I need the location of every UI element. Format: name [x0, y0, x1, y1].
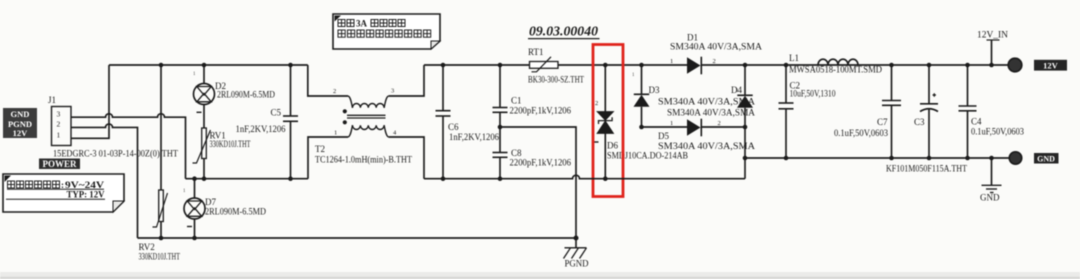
port 12V label box: [1034, 60, 1067, 71]
node junction dot C4 top: [965, 63, 970, 68]
note input voltage range box: [3, 174, 124, 212]
capacitor C8: [493, 127, 508, 179]
node junction dot C7 bottom: [889, 156, 894, 161]
label POWER box: [39, 159, 80, 170]
highlight red box: [593, 45, 623, 197]
svg-text:2200pF,1kV,1206: 2200pF,1kV,1206: [510, 106, 572, 116]
node junction dot gnd takeoff: [743, 156, 748, 161]
port 12V pad: [1008, 58, 1022, 72]
svg-text:SMDJ10CA.DO-214AB: SMDJ10CA.DO-214AB: [607, 151, 688, 161]
wire D2 to RV1: [203, 105, 205, 129]
svg-text:RT1: RT1: [528, 47, 543, 57]
svg-text:4: 4: [393, 130, 397, 137]
wire D4 anode to gnd rail: [744, 127, 746, 179]
svg-text:0.1uF,50V,0603: 0.1uF,50V,0603: [971, 127, 1024, 137]
svg-text:POWER: POWER: [42, 159, 77, 169]
transformer T2 common mode choke: [308, 65, 424, 179]
node junction dot C3 top: [927, 63, 932, 68]
capacitor C4: [959, 65, 977, 158]
svg-text:D5: D5: [658, 131, 669, 141]
capacitor C5: [283, 65, 298, 179]
node junction dot C1 C8 midpoint: [498, 125, 503, 130]
wire gnd rail: [745, 157, 1010, 159]
svg-text:L1: L1: [789, 53, 799, 63]
node junction dot D4 top: [743, 63, 748, 68]
svg-text:2RL090M-6.5MD: 2RL090M-6.5MD: [205, 207, 266, 217]
svg-text:12V: 12V: [1043, 61, 1059, 71]
diode D1: [670, 57, 716, 75]
svg-text:GND: GND: [980, 193, 1000, 203]
node junction dot C7 top: [889, 63, 894, 68]
svg-text:C5: C5: [271, 108, 282, 118]
port GND label box: [1034, 153, 1059, 164]
wire midpoint to drop: [500, 127, 576, 238]
inductor L1: [818, 59, 858, 65]
wire RV2 column from top rail: [160, 65, 162, 190]
svg-text:C1: C1: [511, 96, 522, 106]
ground PGND chassis: [564, 238, 589, 269]
svg-text:C3: C3: [914, 117, 925, 127]
svg-text:12V_IN: 12V_IN: [977, 30, 1009, 40]
wire lower rail right segment with hop: [424, 175, 745, 178]
node junction dot D7 bottom: [192, 236, 197, 241]
svg-text:1nF,2KV,1206: 1nF,2KV,1206: [236, 124, 286, 134]
svg-text:SM340A 40V/3A,SMA: SM340A 40V/3A,SMA: [670, 42, 763, 52]
wire J1 pin2 lead with hop: [71, 124, 138, 238]
svg-text:RV2: RV2: [139, 242, 155, 252]
capacitor C7: [882, 65, 901, 158]
svg-text:C4: C4: [971, 117, 982, 127]
label GND PGND 12V box: [3, 108, 37, 138]
svg-text:SM340A 40V/3A,SMA: SM340A 40V/3A,SMA: [658, 141, 756, 151]
diode D3: [632, 65, 650, 127]
svg-text:GND: GND: [1037, 155, 1055, 164]
node junction dot C6 top: [441, 63, 446, 68]
wire top rail second segment: [424, 64, 530, 66]
wire J1 pin3 lead with hops: [71, 114, 186, 179]
svg-text:0.1uF,50V,0603: 0.1uF,50V,0603: [834, 128, 888, 138]
capacitor C3 polarized: [920, 65, 938, 158]
note fake CJK glyphs line1 (dian yuan shu ru fan wei): [8, 181, 60, 188]
svg-text:1: 1: [183, 189, 186, 194]
svg-text:2200pF,1kV,1206: 2200pF,1kV,1206: [510, 157, 572, 167]
svg-text:2RL090M-6.5MD: 2RL090M-6.5MD: [217, 90, 275, 100]
svg-text:330KD10J.THT: 330KD10J.THT: [210, 139, 251, 149]
svg-text:D6: D6: [607, 141, 618, 151]
note choke selection box: [333, 14, 440, 49]
capacitor C6: [436, 65, 451, 179]
svg-text:9V~24V: 9V~24V: [65, 181, 104, 191]
port GND pad: [1009, 152, 1021, 164]
svg-text:2: 2: [718, 120, 721, 127]
svg-text:PGND: PGND: [565, 259, 589, 269]
capacitor C2: [779, 65, 794, 158]
svg-text::: :: [61, 180, 64, 190]
scan artifact bottom band: [0, 272, 1080, 279]
capacitor C1: [493, 65, 508, 127]
svg-text:10uF,50V,1310: 10uF,50V,1310: [790, 89, 836, 99]
svg-text:2: 2: [333, 88, 336, 95]
svg-text:1: 1: [670, 120, 673, 127]
node junction dot C2 top: [784, 63, 789, 68]
svg-text:TYP: 12V: TYP: 12V: [67, 191, 105, 201]
wire bridge row2 left: [642, 126, 688, 128]
svg-text:C7: C7: [877, 117, 888, 127]
node junction dot D3 bottom: [639, 125, 644, 130]
wire top rail third segment: [558, 64, 687, 66]
svg-text:D3: D3: [649, 85, 660, 95]
ground GND earth: [980, 158, 1002, 203]
node junction dot C1 top: [498, 63, 503, 68]
svg-text:2: 2: [57, 120, 61, 129]
svg-text:2: 2: [595, 100, 598, 107]
svg-text:T2: T2: [315, 144, 325, 154]
svg-text:C6: C6: [448, 122, 459, 132]
diode D5: [670, 119, 721, 137]
node junction dot D6 top: [603, 63, 608, 68]
svg-text:3: 3: [57, 110, 61, 119]
svg-text:1: 1: [334, 130, 337, 137]
node junction dot GND stub: [989, 156, 994, 161]
node junction dot 12V_IN stub: [989, 63, 994, 68]
svg-text:MWSA0518-100MT.SMD: MWSA0518-100MT.SMD: [789, 65, 882, 75]
node junction dot C2 bottom: [784, 156, 789, 161]
thermistor RT1: [530, 57, 559, 72]
node junction dot C6 bottom: [441, 176, 446, 181]
node junction dot RV2 bottom: [159, 236, 164, 241]
protector D2 (TSS): [193, 72, 215, 112]
node junction dot RV1 bottom: [202, 176, 207, 181]
node junction dot D6 bottom: [603, 176, 608, 181]
node junction dot C3 bottom: [927, 156, 932, 161]
svg-text:330KD10J.THT: 330KD10J.THT: [139, 252, 181, 262]
node junction dot D7 top: [192, 176, 197, 181]
svg-text:D7: D7: [205, 197, 216, 207]
node junction dot RV2 top: [159, 63, 164, 68]
node junction dot D3 top: [639, 63, 644, 68]
label document number: [528, 25, 600, 40]
svg-text:1: 1: [632, 73, 635, 78]
wire bridge row2 right: [701, 126, 745, 128]
note fake CJK glyphs top line1: [338, 20, 405, 27]
wire RV2 bottom: [160, 222, 162, 239]
wire bottom rail: [138, 237, 578, 239]
wire RV1 bottom: [203, 159, 205, 179]
svg-text:3A: 3A: [356, 19, 368, 29]
svg-text:12V: 12V: [13, 128, 29, 138]
node junction dot D4 bottom: [743, 125, 748, 130]
svg-text:3: 3: [391, 88, 394, 95]
svg-text:BK30-300-SZ.THT: BK30-300-SZ.THT: [528, 75, 584, 85]
varistor RV1: [193, 128, 211, 163]
node junction dot C5 top: [288, 63, 293, 68]
connector J1: [48, 95, 71, 146]
diode D4: [736, 65, 753, 127]
svg-text:1: 1: [57, 131, 61, 140]
wire lower rail left segment: [186, 178, 309, 180]
node junction dot C8 bottom: [498, 176, 503, 181]
wire top rail left segment: [109, 64, 308, 66]
protector D7 (TSS): [183, 179, 205, 238]
svg-text:D4: D4: [731, 85, 742, 95]
svg-text:1: 1: [193, 72, 196, 77]
svg-text:1: 1: [670, 58, 673, 65]
svg-text:KF101M050F115A.THT: KF101M050F115A.THT: [886, 164, 967, 174]
svg-text:J1: J1: [48, 95, 56, 105]
node junction dot C5 bottom: [288, 176, 293, 181]
node junction dot D2 top: [202, 63, 207, 68]
varistor RV2: [153, 190, 168, 227]
svg-text:SM340A 40V/3A,SMA: SM340A 40V/3A,SMA: [667, 108, 756, 118]
wire top rail fourth segment: [701, 64, 1008, 66]
svg-text:GND: GND: [11, 109, 30, 119]
note fake CJK glyphs top line2: [338, 30, 431, 37]
svg-text:1nF,2KV,1206: 1nF,2KV,1206: [449, 132, 499, 142]
wire D2 column from top rail: [203, 65, 205, 84]
TVS diode D6 bidirectional: [594, 65, 614, 179]
svg-text:2: 2: [713, 58, 716, 65]
svg-text:15EDGRC-3 01-03P-14-00Z(0).THT: 15EDGRC-3 01-03P-14-00Z(0).THT: [53, 149, 178, 159]
net label 12V_IN: [977, 30, 1009, 66]
svg-text:09.03.00040: 09.03.00040: [529, 25, 598, 40]
node junction dot C4 bottom: [965, 156, 970, 161]
node junction dot PGND: [574, 236, 579, 241]
svg-text:TC1264-1.0mH(min)-B.THT: TC1264-1.0mH(min)-B.THT: [315, 155, 412, 165]
wire J1 pin1 feed up: [71, 65, 109, 138]
